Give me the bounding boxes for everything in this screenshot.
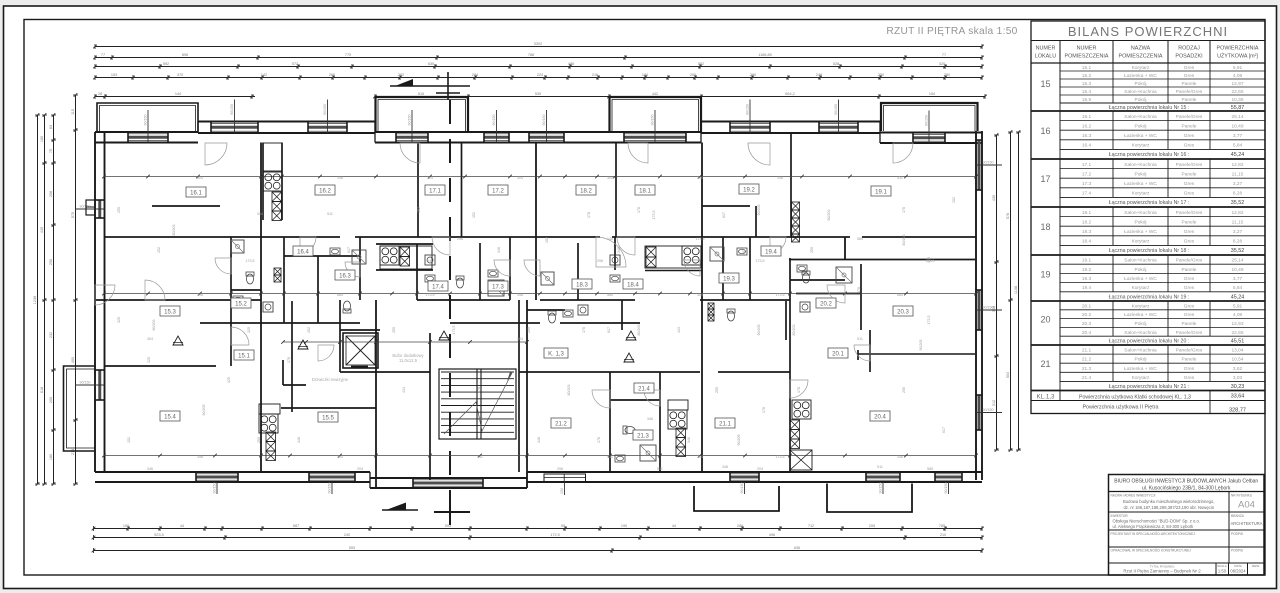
svg-text:Rzut II Piętra Zamienny – Bu: Rzut II Piętra Zamienny – Budynek Nr 2 [1123, 569, 1201, 574]
svg-text:90/205: 90/205 [737, 435, 741, 446]
svg-text:148: 148 [897, 455, 903, 459]
svg-text:RZUT II PIĘTRA skala 1:50: RZUT II PIĘTRA skala 1:50 [886, 26, 1017, 37]
svg-text:Łączna powierzchnia lokalu Nr: Łączna powierzchnia lokalu Nr 19 : [1109, 294, 1189, 300]
svg-text:664,2: 664,2 [785, 92, 795, 96]
svg-text:346: 346 [297, 437, 301, 443]
svg-text:496: 496 [769, 533, 775, 537]
svg-text:17.4: 17.4 [1082, 191, 1092, 197]
svg-text:20.2: 20.2 [820, 302, 832, 308]
svg-text:Panele: Panele [1182, 357, 1197, 363]
svg-text:19.2: 19.2 [1082, 267, 1092, 273]
room labels [186, 187, 206, 197]
bottom dimension line 1 [94, 528, 983, 530]
svg-text:511: 511 [477, 455, 483, 459]
svg-text:173,5: 173,5 [452, 326, 456, 335]
svg-text:304: 304 [147, 337, 153, 341]
svg-text:173,5: 173,5 [426, 293, 435, 297]
svg-text:178: 178 [637, 207, 641, 213]
svg-text:370: 370 [177, 73, 183, 77]
exterior left wall [94, 132, 96, 472]
svg-text:178: 178 [902, 207, 906, 213]
svg-text:160: 160 [40, 136, 44, 142]
bath 20.2 fixtures [802, 271, 810, 283]
svg-text:255: 255 [902, 387, 906, 393]
svg-text:12,82: 12,82 [1231, 162, 1243, 168]
svg-text:SKALA: SKALA [1217, 564, 1227, 568]
svg-text:178: 178 [477, 387, 481, 393]
kitchen 18-19 block [682, 246, 701, 265]
svg-text:325: 325 [227, 377, 231, 383]
svg-text:20.3: 20.3 [897, 310, 909, 316]
svg-text:617: 617 [347, 247, 351, 253]
svg-text:630: 630 [428, 62, 434, 66]
svg-text:204: 204 [427, 176, 433, 180]
svg-text:115: 115 [71, 109, 75, 115]
svg-text:511: 511 [607, 455, 613, 459]
svg-text:523,5: 523,5 [154, 533, 164, 537]
svg-text:POMIESZCZENIA: POMIESZCZENIA [1118, 54, 1162, 60]
svg-text:21.3: 21.3 [1082, 366, 1092, 372]
svg-text:346: 346 [647, 417, 653, 421]
svg-text:280: 280 [737, 524, 743, 528]
svg-text:260: 260 [329, 73, 335, 77]
svg-text:152: 152 [472, 212, 476, 218]
svg-text:232: 232 [49, 332, 53, 338]
svg-text:173,5: 173,5 [776, 455, 785, 459]
left dimension line 4 [75, 95, 77, 484]
svg-text:Łazienka + WC: Łazienka + WC [1124, 366, 1157, 372]
svg-text:18.3: 18.3 [576, 283, 588, 289]
svg-text:90/150: 90/150 [925, 115, 929, 126]
svg-text:617: 617 [722, 212, 726, 218]
svg-text:Pokój: Pokój [1135, 123, 1147, 129]
svg-text:216: 216 [592, 73, 598, 77]
svg-text:172,5: 172,5 [550, 533, 560, 537]
svg-text:Gres: Gres [1184, 366, 1195, 372]
exterior top wall step x701 [700, 122, 702, 143]
svg-text:19.2: 19.2 [743, 188, 755, 194]
svg-text:Łazienka + WC: Łazienka + WC [1124, 312, 1157, 318]
svg-text:592: 592 [163, 62, 169, 66]
svg-text:Korytarz: Korytarz [1132, 143, 1150, 149]
bath 21.3 fixtures [623, 426, 635, 434]
svg-text:312: 312 [992, 400, 996, 406]
svg-text:90/150: 90/150 [408, 115, 412, 126]
svg-text:21.2: 21.2 [1082, 357, 1092, 363]
svg-text:45,51: 45,51 [1231, 339, 1245, 345]
svg-text:NAZWA I ADRES INWESTYCJI: NAZWA I ADRES INWESTYCJI [1111, 494, 1156, 498]
svg-text:Panele: Panele [1182, 219, 1197, 225]
svg-text:11,0x12,5: 11,0x12,5 [399, 358, 418, 363]
svg-text:Panele: Panele [1182, 81, 1197, 87]
svg-text:17.3: 17.3 [492, 285, 504, 291]
svg-text:15: 15 [1040, 79, 1050, 89]
svg-text:06/2024: 06/2024 [1230, 569, 1246, 574]
svg-text:204: 204 [697, 455, 703, 459]
svg-text:304: 304 [197, 176, 203, 180]
svg-text:K. 1,3: K. 1,3 [548, 352, 564, 358]
door swing arcs [205, 143, 227, 165]
svg-text:Salon+Kuchnia: Salon+Kuchnia [1124, 89, 1157, 95]
svg-text:173,5: 173,5 [926, 259, 935, 263]
exterior top wall segment A (under balcony) [95, 131, 198, 133]
bath 18.3 fixtures [541, 272, 554, 285]
svg-text:636: 636 [794, 546, 800, 550]
vent triangle 4 [624, 353, 634, 362]
svg-text:152: 152 [307, 327, 311, 333]
svg-text:152: 152 [127, 437, 131, 443]
svg-text:Panele: Panele [1182, 97, 1197, 103]
svg-text:28: 28 [98, 92, 102, 96]
left dimension line 2 [44, 115, 46, 484]
svg-text:Gres: Gres [1184, 143, 1195, 149]
svg-text:20.2: 20.2 [1082, 312, 1092, 318]
entrance steps [544, 474, 586, 482]
svg-text:90/150: 90/150 [328, 483, 332, 494]
svg-text:20.3: 20.3 [1082, 321, 1092, 327]
svg-text:255: 255 [117, 207, 121, 213]
svg-text:16.2: 16.2 [1082, 123, 1092, 129]
svg-text:83: 83 [49, 125, 53, 129]
svg-text:1238: 1238 [33, 296, 37, 304]
svg-text:19: 19 [1040, 269, 1050, 279]
svg-text:304: 304 [517, 337, 523, 341]
svg-text:21: 21 [1040, 359, 1050, 369]
exterior bottom wall left part [95, 471, 370, 473]
svg-text:173,5: 173,5 [927, 316, 931, 325]
svg-text:511: 511 [427, 259, 433, 263]
svg-text:304: 304 [257, 212, 263, 216]
svg-text:413: 413 [402, 387, 406, 393]
top dimension line 3 [95, 66, 982, 68]
svg-text:OPRACOWAŁ W SPECJALNOŚCI KONST: OPRACOWAŁ W SPECJALNOŚCI KONSTRUKCYJNEJ [1111, 548, 1192, 553]
svg-text:Gres: Gres [1184, 375, 1195, 381]
svg-text:530: 530 [535, 92, 541, 96]
svg-text:178: 178 [797, 387, 801, 393]
internal dim chain y293 [104, 293, 976, 295]
exterior right wall [981, 131, 983, 480]
svg-text:240: 240 [344, 533, 350, 537]
svg-text:90/150: 90/150 [230, 104, 234, 115]
svg-text:200: 200 [690, 73, 696, 77]
svg-text:5,84: 5,84 [1233, 285, 1243, 291]
svg-text:Łazienka + WC: Łazienka + WC [1124, 229, 1157, 235]
svg-text:178: 178 [582, 327, 586, 333]
balcony bottom 2 [827, 484, 912, 513]
vent triangle 5 [173, 336, 183, 345]
svg-text:90/205: 90/205 [919, 340, 923, 351]
internal dim chain y176 [104, 176, 976, 178]
svg-text:572: 572 [292, 62, 298, 66]
svg-text:3,27: 3,27 [1233, 181, 1243, 187]
svg-text:NR RYSUNKU: NR RYSUNKU [1231, 494, 1253, 498]
svg-text:504: 504 [1006, 372, 1010, 378]
svg-text:35,52: 35,52 [1231, 248, 1245, 254]
svg-text:255: 255 [810, 247, 814, 253]
svg-text:320: 320 [939, 62, 945, 66]
svg-text:325: 325 [117, 317, 121, 323]
svg-text:779: 779 [345, 53, 351, 57]
svg-text:35,52: 35,52 [1231, 200, 1245, 206]
svg-text:BRANŻA: BRANŻA [1231, 513, 1245, 518]
section marker bottom [382, 509, 418, 511]
title block [1109, 475, 1265, 576]
svg-text:Panele/Gres: Panele/Gres [1176, 89, 1203, 95]
svg-text:Pokój: Pokój [1135, 267, 1147, 273]
svg-text:248: 248 [816, 73, 822, 77]
table frame and header [1031, 21, 1265, 414]
svg-text:Salon+Kuchnia: Salon+Kuchnia [1124, 114, 1157, 120]
svg-text:Pokój: Pokój [1135, 357, 1147, 363]
exterior top wall step x375 [374, 122, 376, 143]
svg-text:585: 585 [607, 293, 613, 297]
svg-text:250: 250 [878, 73, 884, 77]
svg-text:80/203: 80/203 [827, 210, 831, 221]
svg-text:11,15: 11,15 [1232, 219, 1244, 225]
svg-text:16.2: 16.2 [319, 189, 331, 195]
right dimension line 1 [996, 135, 998, 450]
svg-text:19.1: 19.1 [875, 190, 887, 196]
svg-text:Salon+Kuchnia: Salon+Kuchnia [1124, 330, 1157, 336]
svg-text:13,04: 13,04 [1231, 348, 1243, 354]
svg-text:178: 178 [762, 407, 766, 413]
balcony left side [64, 366, 96, 451]
svg-text:3,77: 3,77 [1233, 133, 1243, 139]
kitchen 20 strip [792, 400, 811, 419]
svg-text:296: 296 [697, 176, 703, 180]
svg-text:90/150: 90/150 [879, 483, 883, 494]
svg-text:148: 148 [337, 176, 343, 180]
svg-text:Obsługa Nieruchomości "BUD-DOM: Obsługa Nieruchomości "BUD-DOM" Sp. z o.… [1113, 519, 1200, 524]
svg-text:255: 255 [715, 387, 719, 393]
svg-text:712: 712 [808, 524, 814, 528]
svg-text:17.3: 17.3 [1082, 181, 1092, 187]
svg-text:12,97: 12,97 [1231, 81, 1243, 87]
top dimension line 5 [95, 96, 255, 98]
svg-text:A04: A04 [1238, 500, 1255, 511]
svg-text:173,5: 173,5 [776, 293, 785, 297]
svg-text:896: 896 [182, 53, 188, 57]
svg-text:21.1: 21.1 [719, 422, 731, 428]
svg-text:90/150: 90/150 [542, 115, 546, 126]
svg-text:18.4: 18.4 [627, 283, 639, 289]
svg-text:90/150: 90/150 [983, 306, 994, 310]
vent triangle 2 [439, 331, 449, 340]
svg-text:15.1: 15.1 [238, 354, 250, 360]
svg-text:Panele/Gres: Panele/Gres [1176, 162, 1203, 168]
svg-text:25,14: 25,14 [1231, 258, 1243, 264]
svg-text:304: 304 [517, 176, 523, 180]
svg-text:18.1: 18.1 [1082, 210, 1092, 216]
svg-text:ul. Aleksego Frąckiewicza 2, 8: ul. Aleksego Frąckiewicza 2, 84-300 Lębo… [1113, 524, 1195, 529]
right dimension line 3 [1018, 132, 1020, 450]
svg-text:Korytarz: Korytarz [1132, 191, 1150, 197]
kitchen 21 strip [668, 410, 687, 429]
exterior bottom wall step x527 [526, 472, 528, 488]
svg-text:18.2: 18.2 [580, 189, 592, 195]
svg-text:Pokój: Pokój [1135, 81, 1147, 87]
svg-text:18.4: 18.4 [1082, 239, 1092, 245]
svg-text:296: 296 [197, 293, 203, 297]
svg-text:NUMER: NUMER [1036, 46, 1056, 52]
svg-text:346: 346 [617, 247, 621, 253]
svg-text:304: 304 [607, 176, 613, 180]
svg-text:511: 511 [897, 176, 903, 180]
bath 15.2 fixtures [246, 272, 254, 284]
svg-text:Panele: Panele [1182, 171, 1197, 177]
svg-text:255: 255 [527, 327, 531, 333]
svg-text:Pokój: Pokój [1135, 97, 1147, 103]
svg-text:80/203: 80/203 [637, 325, 641, 336]
svg-text:20: 20 [1040, 315, 1050, 325]
svg-text:Łazienka + WC: Łazienka + WC [1124, 181, 1157, 187]
svg-text:17.2: 17.2 [492, 189, 504, 195]
svg-text:528: 528 [833, 62, 839, 66]
svg-text:11,15: 11,15 [1232, 171, 1244, 177]
svg-text:21.1: 21.1 [1082, 348, 1092, 354]
bath 19.3 fixtures [710, 247, 724, 261]
svg-text:21.4: 21.4 [638, 387, 650, 393]
vent triangle 1 [298, 340, 308, 349]
svg-text:142: 142 [261, 73, 267, 77]
svg-text:3,03: 3,03 [1233, 375, 1243, 381]
svg-text:788: 788 [528, 53, 534, 57]
svg-text:dz. nr 186,187,188,298,387/23,: dz. nr 186,187,188,298,387/23,190 obr. N… [1123, 505, 1214, 510]
svg-text:ARCHITEKTURA: ARCHITEKTURA [1231, 521, 1263, 526]
svg-text:10,36: 10,36 [1231, 97, 1243, 103]
svg-text:173,5: 173,5 [696, 237, 705, 241]
svg-text:KL.1,3: KL.1,3 [1037, 394, 1055, 401]
svg-text:UŻYTKOWA [m²]: UŻYTKOWA [m²] [1217, 53, 1258, 60]
svg-text:90/150: 90/150 [740, 483, 744, 494]
svg-text:16: 16 [1040, 126, 1050, 136]
svg-text:90/205: 90/205 [757, 205, 761, 216]
exterior top wall step x198 [197, 122, 199, 133]
svg-text:77: 77 [101, 53, 105, 57]
svg-text:15.2: 15.2 [235, 302, 247, 308]
svg-text:280: 280 [944, 73, 950, 77]
mid dim line y342 [283, 341, 527, 343]
svg-text:144: 144 [175, 92, 181, 96]
svg-text:Gres: Gres [1184, 276, 1195, 282]
svg-text:Łazienka + WC: Łazienka + WC [1124, 73, 1157, 79]
svg-text:618: 618 [40, 387, 44, 393]
svg-text:15.5: 15.5 [322, 416, 334, 422]
svg-text:4,08: 4,08 [1233, 73, 1243, 79]
svg-text:250: 250 [49, 259, 53, 265]
svg-text:80/203: 80/203 [792, 325, 796, 336]
svg-text:325: 325 [147, 357, 151, 363]
svg-text:8,28: 8,28 [1233, 191, 1243, 197]
svg-text:292: 292 [398, 73, 404, 77]
section marker top [390, 85, 470, 87]
svg-text:Łączna powierzchnia lokalu Nr: Łączna powierzchnia lokalu Nr 18 : [1109, 248, 1189, 254]
svg-text:204: 204 [757, 467, 763, 471]
svg-text:77: 77 [942, 53, 946, 57]
svg-text:296: 296 [457, 237, 463, 241]
svg-text:173,5: 173,5 [246, 259, 255, 263]
svg-text:16.1: 16.1 [1082, 114, 1092, 120]
svg-text:PROJEKTANT W SPECJALNOŚCI ARCH: PROJEKTANT W SPECJALNOŚCI ARCHITEKTONICZ… [1111, 531, 1196, 536]
vent triangle 3 [626, 331, 636, 340]
svg-text:3,77: 3,77 [1233, 276, 1243, 282]
svg-text:NUMER: NUMER [1077, 46, 1097, 52]
bath 16.3 fixtures [343, 301, 351, 313]
svg-text:90/150: 90/150 [834, 104, 838, 115]
svg-text:30,23: 30,23 [1231, 384, 1245, 390]
svg-text:617: 617 [607, 327, 611, 333]
svg-text:75: 75 [49, 149, 53, 153]
svg-text:346: 346 [537, 437, 541, 443]
svg-text:190: 190 [621, 524, 627, 528]
svg-text:1186,85: 1186,85 [758, 53, 771, 57]
svg-text:Łączna powierzchnia lokalu Nr: Łączna powierzchnia lokalu Nr 20 : [1109, 339, 1189, 345]
svg-text:178: 178 [597, 437, 601, 443]
svg-text:Gres: Gres [1184, 133, 1195, 139]
svg-text:ul. Kusocińskiego 23B/1, 84-30: ul. Kusocińskiego 23B/1, 84-300 Lębork [1142, 486, 1231, 492]
svg-text:90/150: 90/150 [983, 408, 994, 412]
svg-text:Drzwiczki rewizyjne: Drzwiczki rewizyjne [312, 377, 349, 382]
svg-text:Panele/Gres: Panele/Gres [1176, 210, 1203, 216]
svg-text:Korytarz: Korytarz [1132, 375, 1150, 381]
bottom dimension line 2 [94, 537, 983, 539]
svg-text:511: 511 [877, 465, 883, 469]
svg-text:20.1: 20.1 [832, 352, 844, 358]
svg-text:204: 204 [357, 467, 363, 471]
svg-text:Powierzchnia użytkowa Klatki s: Powierzchnia użytkowa Klatki schodowej K… [1079, 395, 1191, 401]
svg-text:Panele/Gres: Panele/Gres [1176, 258, 1203, 264]
svg-text:25,14: 25,14 [1231, 114, 1243, 120]
svg-text:511: 511 [657, 467, 663, 471]
svg-text:POSADZKI: POSADZKI [1175, 54, 1202, 60]
svg-text:152: 152 [545, 237, 549, 243]
svg-text:18.3: 18.3 [1082, 229, 1092, 235]
svg-text:90: 90 [561, 524, 565, 528]
svg-text:Panele: Panele [1182, 321, 1197, 327]
svg-text:511: 511 [857, 337, 863, 341]
bath 17.3 fixtures [456, 276, 464, 288]
svg-text:18.2: 18.2 [1082, 219, 1092, 225]
svg-text:Łazienka + WC: Łazienka + WC [1124, 133, 1157, 139]
svg-text:Gres: Gres [1184, 191, 1195, 197]
svg-text:4,08: 4,08 [1233, 312, 1243, 318]
svg-text:3,62: 3,62 [1233, 366, 1243, 372]
svg-text:19.4: 19.4 [765, 250, 777, 256]
svg-text:16.3: 16.3 [1082, 133, 1092, 139]
svg-text:REW.: REW. [1252, 564, 1260, 568]
svg-text:21.4: 21.4 [1082, 375, 1092, 381]
svg-text:45,24: 45,24 [1231, 152, 1245, 158]
svg-text:15.5: 15.5 [1082, 97, 1092, 103]
bay 3 (top-right) [881, 103, 978, 131]
svg-text:DATA: DATA [1234, 564, 1242, 568]
svg-text:Łazienka + WC: Łazienka + WC [1124, 276, 1157, 282]
svg-text:Korytarz: Korytarz [1132, 303, 1150, 309]
svg-text:400: 400 [71, 357, 75, 363]
wall pilaster left [86, 200, 95, 215]
svg-text:515: 515 [418, 92, 424, 96]
svg-text:488: 488 [568, 62, 574, 66]
svg-text:Powierzchnia użytkowa II Piętr: Powierzchnia użytkowa II Piętra [1082, 405, 1158, 411]
svg-text:178: 178 [587, 212, 591, 218]
svg-text:90/150: 90/150 [492, 115, 496, 126]
svg-text:90/150: 90/150 [944, 483, 948, 494]
svg-text:152: 152 [417, 207, 421, 213]
svg-text:Salon+Kuchnia: Salon+Kuchnia [1124, 258, 1157, 264]
svg-text:90/150: 90/150 [746, 104, 750, 115]
svg-text:Salon+Kuchnia: Salon+Kuchnia [1124, 348, 1157, 354]
svg-text:294: 294 [472, 73, 478, 77]
